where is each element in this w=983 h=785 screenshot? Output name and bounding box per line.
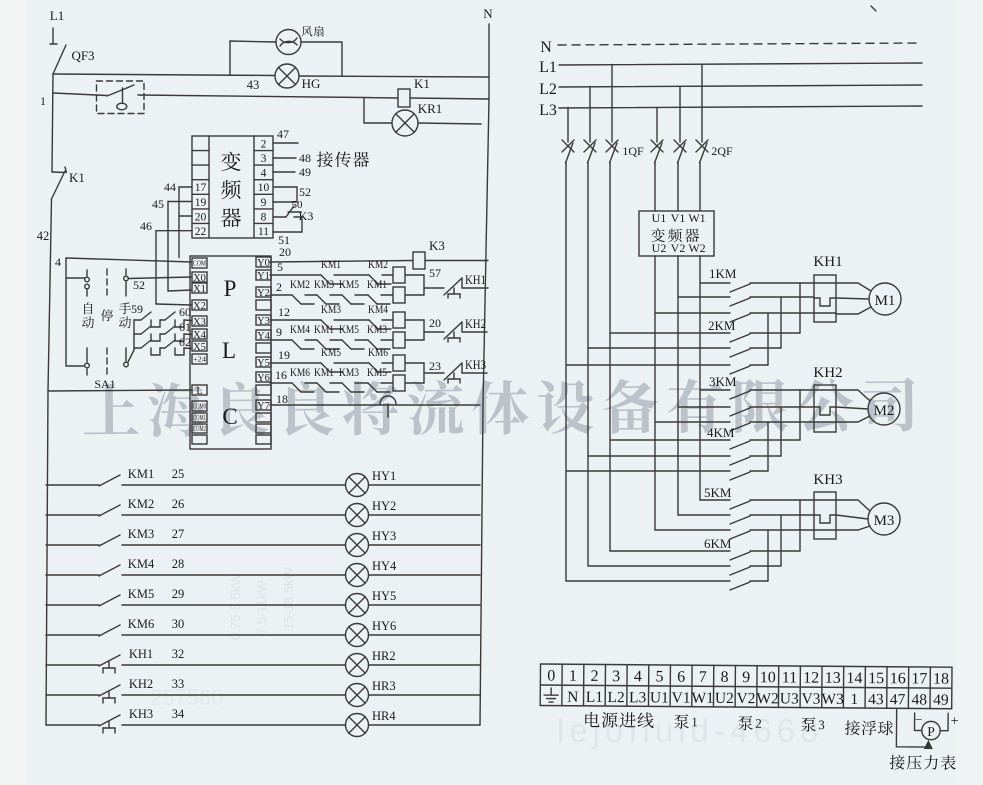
svg-text:X1: X1	[193, 284, 206, 295]
svg-text:V1: V1	[671, 690, 690, 707]
wire Y2 / contactor coil KM2 circuit	[270, 277, 424, 304]
stray scan mark	[871, 6, 876, 11]
svg-text:29: 29	[172, 587, 185, 601]
contact KM4 / lamp HY4 row	[46, 557, 480, 587]
wire fan branch	[230, 41, 342, 76]
svg-text:6: 6	[677, 669, 685, 686]
svg-text:1KM: 1KM	[709, 266, 737, 281]
bus N	[540, 39, 921, 56]
svg-text:HY6: HY6	[372, 619, 396, 633]
svg-text:Y7: Y7	[257, 401, 270, 412]
wire 46	[140, 219, 192, 305]
svg-text:M1: M1	[875, 293, 896, 309]
svg-text:KH3: KH3	[813, 472, 842, 488]
svg-text:U2: U2	[715, 690, 734, 707]
svg-text:HR2: HR2	[372, 649, 396, 663]
svg-text:M3: M3	[874, 513, 895, 529]
svg-text:QF3: QF3	[71, 48, 94, 63]
svg-text:KH1: KH1	[813, 254, 842, 270]
svg-text:Y0: Y0	[257, 258, 270, 269]
svg-text:V2: V2	[671, 241, 686, 255]
thermal contact KH1 / lamp HR2 row	[46, 647, 480, 677]
svg-text:COM: COM	[193, 260, 207, 268]
svg-text:KM1: KM1	[314, 322, 334, 336]
svg-text:COM1: COM1	[193, 414, 206, 422]
wires KH3 to M3	[836, 500, 870, 530]
wire Y1 / contactor coil KM1 circuit	[270, 257, 424, 284]
svg-text:HR3: HR3	[372, 679, 396, 693]
svg-text:L2: L2	[607, 689, 624, 706]
node L1	[50, 8, 64, 23]
svg-text:19: 19	[278, 348, 290, 362]
svg-text:0: 0	[547, 668, 555, 685]
contact K1	[52, 167, 85, 199]
svg-text:HY3: HY3	[372, 529, 396, 543]
svg-text:W3: W3	[821, 691, 844, 708]
svg-text:34: 34	[172, 707, 185, 721]
breaker QF3	[53, 45, 95, 74]
node 1	[40, 94, 46, 108]
svg-text:17: 17	[195, 182, 207, 194]
svg-text:1: 1	[569, 668, 577, 685]
svg-text:42: 42	[37, 229, 50, 243]
svg-text:1: 1	[850, 691, 858, 708]
bleed-through faint text	[150, 566, 296, 710]
svg-text:46: 46	[140, 219, 152, 233]
svg-text:17: 17	[911, 670, 927, 687]
wire net 4	[55, 255, 192, 366]
motor M1	[869, 283, 901, 315]
svg-text:14: 14	[846, 670, 862, 687]
svg-text:9: 9	[261, 197, 267, 209]
svg-text:KH2: KH2	[465, 316, 486, 331]
contact KM6 / lamp HY6 row	[46, 617, 480, 647]
svg-text:11: 11	[258, 226, 269, 238]
svg-text:8: 8	[261, 211, 267, 223]
wire direct bus L1 phase	[610, 162, 730, 551]
label 电源进线	[585, 712, 654, 728]
svg-text:20: 20	[195, 211, 207, 223]
svg-text:M2: M2	[874, 403, 895, 419]
wire Y4 / contactor coil KM4 circuit	[270, 322, 424, 349]
svg-text:15-18.5kW: 15-18.5kW	[281, 566, 296, 630]
svg-text:48: 48	[299, 151, 311, 165]
wire inverter output V2 phase	[678, 256, 730, 515]
svg-text:7: 7	[699, 669, 707, 686]
svg-text:KR1: KR1	[418, 101, 443, 116]
svg-text:32: 32	[172, 647, 185, 661]
svg-text:Y5: Y5	[257, 358, 270, 369]
wire 47	[273, 127, 298, 143]
svg-text:16: 16	[275, 368, 287, 382]
svg-text:HY2: HY2	[372, 499, 396, 513]
svg-text:23: 23	[429, 359, 441, 373]
svg-text:HG: HG	[302, 76, 321, 91]
svg-text:62: 62	[179, 335, 191, 349]
thermal contact KH2 / lamp HR3 row	[46, 677, 480, 707]
svg-text:2: 2	[276, 280, 282, 294]
svg-text:L3: L3	[539, 102, 557, 119]
svg-text:K1: K1	[414, 76, 430, 91]
svg-text:X3: X3	[193, 317, 206, 328]
svg-text:3: 3	[261, 153, 267, 165]
contact KM5 / lamp HY5 row	[46, 587, 480, 617]
svg-text:KM1: KM1	[367, 277, 387, 291]
svg-text:KM5: KM5	[339, 322, 359, 336]
svg-text:18: 18	[276, 392, 288, 406]
svg-text:HR4: HR4	[372, 709, 396, 723]
svg-text:2QF: 2QF	[711, 144, 733, 158]
svg-text:13: 13	[825, 670, 841, 687]
svg-text:25: 25	[172, 467, 185, 481]
svg-text:59: 59	[131, 302, 143, 316]
wire L1 stub	[50, 28, 57, 44]
contact KM2 / lamp HY2 row	[46, 497, 480, 527]
svg-text:48: 48	[911, 691, 927, 708]
svg-text:KM2: KM2	[368, 257, 388, 271]
svg-text:Y6: Y6	[257, 373, 270, 384]
watermark company name	[84, 377, 915, 438]
svg-text:57: 57	[429, 266, 441, 280]
selector switch SA1	[82, 269, 131, 391]
svg-text:L: L	[196, 386, 202, 397]
manual contact row X3	[141, 305, 192, 327]
svg-text:KM4: KM4	[290, 322, 310, 336]
svg-text:K3: K3	[429, 238, 445, 253]
svg-text:3: 3	[612, 668, 620, 685]
svg-text:KM6: KM6	[128, 617, 154, 631]
contactor contacts 5KM	[704, 485, 750, 539]
motor M3	[868, 503, 900, 535]
label 泵1	[674, 714, 698, 729]
svg-text:HY5: HY5	[372, 589, 396, 603]
svg-text:COM0: COM0	[193, 403, 206, 411]
svg-text:V3: V3	[801, 691, 820, 708]
thermal contact KH3 / lamp HR4 row	[46, 707, 480, 737]
svg-text:X0: X0	[193, 273, 206, 284]
wire Y3 / contactor coil KM3 circuit	[270, 302, 424, 329]
svg-text:33: 33	[172, 677, 185, 691]
svg-text:1: 1	[691, 714, 698, 729]
svg-text:SA1: SA1	[94, 377, 115, 391]
svg-text:KM6: KM6	[290, 365, 310, 379]
svg-text:W1: W1	[691, 690, 714, 707]
svg-text:KM6: KM6	[368, 345, 388, 359]
bus L3	[539, 102, 922, 119]
svg-text:20: 20	[429, 316, 441, 330]
svg-text:28: 28	[172, 557, 185, 571]
contactor contacts 1KM	[709, 266, 750, 322]
relay coil K3	[413, 238, 488, 269]
svg-text:Y2: Y2	[257, 288, 270, 299]
thermal relay KH1	[813, 254, 842, 322]
svg-text:2KM: 2KM	[708, 318, 736, 333]
svg-text:N: N	[567, 689, 578, 706]
svg-text:12: 12	[278, 305, 290, 319]
motor M2	[868, 393, 900, 425]
label 泵2	[738, 716, 762, 731]
pressure gauge P	[896, 709, 958, 749]
svg-text:4: 4	[55, 255, 61, 269]
svg-text:U1: U1	[652, 211, 667, 225]
svg-text:HY4: HY4	[372, 559, 397, 573]
svg-text:KM5: KM5	[367, 365, 387, 379]
svg-text:60: 60	[179, 305, 191, 319]
svg-text:61: 61	[179, 320, 191, 334]
lamp HG	[247, 64, 321, 92]
svg-text:L2: L2	[539, 81, 557, 98]
svg-text:4: 4	[261, 168, 267, 180]
wire direct bus L2 phase	[588, 162, 730, 566]
inverter U1 block 变频器	[192, 136, 273, 238]
svg-text:10: 10	[258, 182, 270, 194]
wire mesh to KH2	[750, 390, 836, 471]
svg-text:3: 3	[818, 717, 825, 732]
junction 23 / thermal contact KH3	[424, 357, 487, 383]
wire inverter output W2 phase	[700, 256, 730, 500]
inverter U2 block 变频器 (power)	[639, 211, 714, 256]
svg-text:16: 16	[890, 670, 906, 687]
svg-text:18: 18	[933, 671, 949, 688]
wires KH1 to M1	[836, 283, 871, 314]
svg-text:44: 44	[164, 180, 176, 194]
svg-text:KM5: KM5	[321, 345, 341, 359]
wire 52 to X0	[66, 277, 192, 292]
wire 51	[273, 232, 302, 247]
svg-text:1QF: 1QF	[622, 144, 644, 158]
wire inverter input	[655, 162, 700, 211]
svg-text:U3: U3	[780, 690, 799, 707]
svg-text:30: 30	[172, 617, 185, 631]
svg-text:45: 45	[152, 197, 164, 211]
label 接压力表	[890, 755, 956, 770]
wire L to PLC	[48, 390, 192, 391]
svg-text:11: 11	[782, 669, 798, 686]
svg-text:X2: X2	[193, 301, 206, 312]
breaker 1QF	[562, 65, 644, 164]
svg-text:U1: U1	[650, 689, 669, 706]
svg-text:0.75-5.5kW: 0.75-5.5kW	[228, 573, 243, 640]
pressure switch (dashed box)	[97, 81, 145, 114]
breaker 2QF	[651, 65, 733, 164]
svg-text:W2: W2	[688, 241, 705, 255]
svg-text:Y1: Y1	[257, 271, 270, 282]
svg-text:KM3: KM3	[314, 277, 334, 291]
svg-text:KM4: KM4	[368, 302, 388, 316]
svg-text:9: 9	[742, 669, 750, 686]
svg-text:52: 52	[133, 278, 145, 292]
svg-text:K1: K1	[69, 170, 85, 185]
node N right rail	[480, 6, 493, 725]
svg-text:KM3: KM3	[367, 322, 387, 336]
PLC block	[190, 256, 271, 449]
svg-text:KM4: KM4	[128, 557, 155, 571]
svg-text:KM1: KM1	[321, 257, 341, 271]
wire inverter output U2 phase	[655, 256, 730, 530]
wire left rail upper	[52, 74, 53, 172]
svg-text:12: 12	[803, 670, 819, 687]
svg-text:+24: +24	[193, 356, 207, 364]
svg-text:6KM: 6KM	[704, 536, 732, 551]
svg-text:HY1: HY1	[372, 469, 396, 483]
svg-text:Y4: Y4	[257, 331, 271, 342]
label 泵3	[801, 717, 825, 732]
svg-text:KM5: KM5	[128, 587, 154, 601]
watermark lejofluid	[557, 712, 823, 749]
svg-text:X5: X5	[193, 342, 206, 353]
wire main top line	[53, 74, 489, 77]
svg-text:L1: L1	[539, 59, 557, 76]
svg-text:4: 4	[634, 668, 642, 685]
svg-text:L3: L3	[629, 689, 647, 706]
bus L1	[539, 59, 922, 76]
svg-text:5: 5	[655, 668, 663, 685]
svg-text:L1: L1	[50, 8, 64, 23]
svg-text:Y3: Y3	[257, 316, 270, 327]
svg-text:4KM: 4KM	[707, 425, 735, 440]
svg-text:1: 1	[40, 94, 46, 108]
svg-text:−: −	[915, 712, 922, 727]
wire Y0 / node 20	[270, 245, 413, 262]
svg-text:10: 10	[760, 669, 776, 686]
thermal relay KH3	[813, 472, 842, 539]
svg-text:KH3: KH3	[465, 357, 486, 372]
svg-text:W1: W1	[688, 211, 705, 225]
svg-text:20: 20	[279, 245, 291, 259]
svg-text:C: C	[222, 404, 237, 429]
thermal relay KH2	[813, 365, 842, 432]
svg-text:KM3: KM3	[321, 302, 341, 316]
svg-text:47: 47	[890, 691, 906, 708]
wire 48 / label 接传器	[273, 151, 369, 167]
svg-text:P: P	[224, 276, 237, 301]
svg-text:X4: X4	[193, 330, 207, 341]
wires KH2 to M2	[836, 390, 870, 422]
svg-text:2: 2	[261, 139, 267, 151]
svg-text:2: 2	[755, 716, 762, 731]
svg-text:KH2: KH2	[813, 365, 842, 381]
wire 45	[152, 197, 192, 291]
svg-text:KM5: KM5	[339, 277, 359, 291]
svg-text:COM2: COM2	[193, 425, 206, 433]
svg-text:15: 15	[868, 670, 884, 687]
contactor contacts 2KM	[708, 318, 750, 374]
svg-text:KM1: KM1	[314, 365, 334, 379]
contact K3 (inverter input)	[273, 206, 313, 232]
svg-text:KH3: KH3	[129, 707, 153, 721]
svg-text:3KM: 3KM	[709, 374, 737, 389]
svg-text:27: 27	[172, 527, 185, 541]
svg-text:43: 43	[868, 691, 884, 708]
bus L2	[539, 81, 922, 98]
svg-text:L: L	[222, 338, 236, 363]
svg-text:2: 2	[590, 668, 598, 685]
svg-text:257560: 257560	[150, 685, 223, 710]
wire 1	[53, 93, 398, 98]
wire mesh to KH1	[750, 283, 836, 365]
wire left rail	[46, 199, 52, 725]
svg-text:W2: W2	[756, 690, 779, 707]
contactor contacts 6KM	[704, 536, 750, 590]
wire 20 stub	[179, 215, 192, 217]
svg-text:+: +	[951, 714, 959, 729]
label 接浮球	[845, 720, 893, 735]
svg-text:52: 52	[299, 185, 311, 199]
svg-text:26: 26	[172, 497, 185, 511]
svg-text:V1: V1	[671, 211, 686, 225]
wire 44	[164, 180, 192, 258]
contact KM3 / lamp HY3 row	[46, 527, 480, 557]
svg-text:5KM: 5KM	[704, 485, 732, 500]
wire 52 bracket	[273, 185, 311, 202]
manual contact row X4	[141, 320, 192, 341]
manual contact row X5	[141, 335, 192, 355]
contactor contacts 4KM	[707, 425, 750, 480]
svg-text:49: 49	[933, 692, 949, 709]
svg-text:KM3: KM3	[128, 527, 154, 541]
contact KM1 / lamp HY1 row	[46, 467, 480, 497]
svg-text:N: N	[540, 39, 552, 56]
svg-text:V2: V2	[736, 690, 755, 707]
svg-text:KH1: KH1	[129, 647, 153, 661]
svg-text:43: 43	[247, 78, 260, 92]
junction 20 / thermal contact KH2	[424, 316, 487, 342]
label 风扇	[302, 26, 324, 37]
svg-text:P: P	[927, 724, 935, 739]
svg-text:N: N	[483, 6, 493, 21]
svg-text:U2: U2	[652, 241, 667, 255]
wire 18 / buzzer	[270, 392, 480, 417]
ground symbol (terminal 0)	[544, 688, 558, 702]
label 50	[288, 199, 303, 212]
relay coil K1	[398, 76, 489, 107]
svg-text:22: 22	[195, 226, 207, 238]
wire 49	[273, 165, 311, 179]
wire mesh to KH3	[750, 500, 836, 581]
wire Y5 / contactor coil KM5 circuit	[270, 345, 424, 372]
junction 57 / thermal contact KH1	[424, 266, 488, 298]
svg-text:KM1: KM1	[128, 467, 154, 481]
terminal strip table	[540, 664, 952, 709]
svg-text:49: 49	[299, 165, 311, 179]
node 42	[37, 229, 50, 243]
lamp KR1	[364, 98, 481, 136]
svg-text:8: 8	[720, 669, 728, 686]
svg-text:19: 19	[195, 197, 207, 209]
svg-text:5: 5	[277, 260, 283, 274]
svg-text:K3: K3	[299, 209, 314, 223]
fan symbol	[276, 30, 301, 55]
svg-text:47: 47	[277, 127, 289, 141]
wire direct bus L3 phase	[566, 162, 730, 581]
svg-text:9: 9	[276, 325, 282, 339]
wire 59 bracket	[128, 302, 143, 362]
contactor contacts 3KM	[709, 374, 750, 431]
wire Y6 / contactor coil KM6 circuit	[270, 365, 424, 392]
svg-text:KM3: KM3	[339, 365, 359, 379]
svg-text:KH2: KH2	[129, 677, 153, 691]
svg-text:7.5-11kW: 7.5-11kW	[254, 580, 269, 635]
svg-text:KM2: KM2	[128, 497, 154, 511]
svg-text:KH1: KH1	[465, 272, 486, 287]
svg-text:KM2: KM2	[290, 277, 310, 291]
svg-text:L1: L1	[586, 689, 603, 706]
